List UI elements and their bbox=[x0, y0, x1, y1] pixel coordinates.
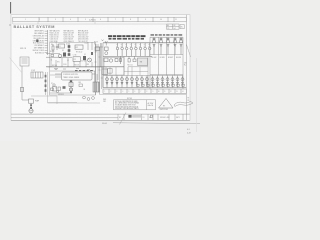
left lower frame bbox=[31, 96, 57, 104]
revision table top-right bbox=[167, 24, 185, 29]
main pcb outline bbox=[50, 43, 96, 96]
zener chain D2 bbox=[68, 43, 70, 56]
title strip dark cell bbox=[128, 115, 131, 118]
revision table entries bbox=[167, 24, 183, 30]
gate box G1 bbox=[108, 69, 113, 74]
inter-board wires bbox=[96, 43, 104, 95]
output row: triac T2 bbox=[111, 76, 114, 88]
switch box S1 bbox=[20, 57, 29, 66]
parts table column 2 bbox=[64, 29, 75, 43]
capacitor C11 bbox=[115, 59, 118, 62]
fork mark bbox=[105, 41, 107, 46]
U1 leads bbox=[55, 74, 96, 77]
output row: triac T5 bbox=[126, 76, 129, 88]
resistor R11 bbox=[120, 56, 122, 64]
junction box JB1 bbox=[102, 69, 108, 75]
lamp socket LS2 bbox=[160, 37, 163, 54]
motor wire bbox=[30, 103, 32, 109]
connector J2 hatched bbox=[31, 72, 43, 78]
title strip gray cell bbox=[132, 115, 141, 118]
wire across lower pcb bbox=[50, 92, 71, 94]
resistor R1 bbox=[52, 44, 54, 53]
bottom rule 2 bbox=[11, 117, 118, 119]
net label strip row 2 bbox=[109, 38, 145, 40]
small caps under bus bbox=[54, 68, 90, 69]
terminal strip TB1 bbox=[103, 89, 186, 93]
output row: triac T11 bbox=[156, 76, 159, 88]
lamp socket LS1 bbox=[153, 37, 156, 54]
transistor Q101 bbox=[116, 43, 119, 57]
socket label dashes bbox=[153, 38, 183, 39]
transistor Q108 bbox=[148, 43, 151, 57]
output row: triac T6 bbox=[131, 76, 134, 88]
lamp L1 bbox=[69, 88, 72, 91]
svg-text:4-19: 4-19 bbox=[187, 133, 191, 135]
crease diagonal left bbox=[10, 58, 23, 74]
parts table column 3 bbox=[78, 29, 89, 43]
title strip cells bbox=[118, 114, 183, 120]
transistor Q1 bbox=[63, 53, 66, 57]
relay coil K1 bbox=[75, 45, 83, 49]
Q row labels bbox=[116, 44, 150, 46]
transistor Q106 bbox=[139, 43, 142, 57]
damper diode D11 bbox=[104, 58, 108, 62]
output row: triac T8 bbox=[141, 76, 144, 88]
wire row w1 bbox=[50, 70, 96, 72]
wire row w2 bbox=[50, 74, 62, 76]
mid rail bbox=[103, 55, 152, 57]
ballast cell labels bbox=[152, 57, 182, 59]
under-strip rule bbox=[100, 94, 186, 96]
lamp socket LS4 bbox=[174, 37, 177, 54]
lamp socket LS3 bbox=[167, 37, 170, 54]
wire L1 down bbox=[70, 80, 72, 93]
subcircuit frame bbox=[104, 58, 124, 75]
right ac bus bbox=[103, 42, 183, 44]
bottom rule 1 bbox=[11, 113, 190, 115]
transistor Q2 bbox=[83, 56, 86, 60]
sheet bbox=[11, 15, 190, 121]
ballast grid bbox=[150, 37, 183, 89]
snubber R21 C21 bbox=[128, 56, 136, 62]
corner diagonal right bbox=[186, 44, 190, 57]
signature swoosh bbox=[174, 101, 193, 106]
parts table column 1 bbox=[50, 29, 61, 43]
header second row line bbox=[13, 23, 166, 25]
output row: triac T4 bbox=[121, 76, 124, 88]
relay RY2 bbox=[29, 99, 34, 103]
output block frame bbox=[150, 36, 183, 38]
node ticks to bus bbox=[45, 31, 48, 53]
riser wires bbox=[103, 56, 128, 87]
pot VR1 bbox=[88, 58, 92, 62]
aux parts left bbox=[53, 84, 55, 86]
scan grain overlay bbox=[11, 15, 190, 121]
varistor Z1 bbox=[63, 86, 66, 89]
transistor Q107 bbox=[144, 43, 147, 57]
TM relay box bbox=[138, 58, 148, 66]
lower rail bbox=[46, 66, 124, 68]
shadow line bbox=[113, 123, 200, 124]
ground rail bbox=[103, 87, 186, 89]
splice blob bbox=[36, 39, 38, 42]
entry component X1 bbox=[105, 47, 109, 55]
svg-text:FIG 4-2: FIG 4-2 bbox=[102, 123, 107, 125]
transistor Q103 bbox=[125, 43, 128, 57]
transistor Q105 bbox=[135, 43, 138, 57]
stub wire lower bbox=[48, 101, 77, 103]
Q row value labels bbox=[116, 45, 150, 47]
arrow mark bbox=[102, 40, 104, 42]
motor M1 bbox=[29, 109, 33, 113]
bottom rule 3 (sheet bottom) bbox=[11, 119, 190, 121]
tm link wire bbox=[124, 71, 148, 73]
output row: triac T13 bbox=[166, 76, 169, 88]
inner right border line bbox=[185, 15, 187, 121]
bundle ticks bbox=[95, 52, 103, 78]
pcb edge parts column bbox=[45, 75, 47, 92]
ballast TM tags bbox=[137, 84, 185, 86]
output row: triac T9 bbox=[146, 76, 149, 88]
output row: triac T1 bbox=[106, 76, 109, 88]
left signal label column bbox=[33, 31, 44, 55]
notes block bbox=[115, 100, 139, 110]
header zone letters bbox=[25, 19, 177, 21]
regulator IC2 bbox=[73, 57, 81, 62]
registration tick above sheet bbox=[10, 2, 12, 14]
terminal strip numbers bbox=[105, 91, 184, 93]
inline fuse F2 bbox=[20, 88, 23, 92]
strip mark square bbox=[150, 115, 152, 117]
transistor Q104 bbox=[130, 43, 133, 57]
output row: triac T16 bbox=[181, 76, 184, 88]
drop wires from tables bbox=[88, 42, 96, 52]
output row: triac T12 bbox=[161, 76, 164, 88]
rail extension bbox=[128, 66, 148, 68]
filter cap C5 bbox=[51, 54, 54, 56]
rectifier D1 bbox=[59, 44, 65, 48]
output row: triac T10 bbox=[151, 76, 154, 88]
thermistor TH1 bbox=[58, 54, 62, 58]
main horizontal bus B bbox=[48, 66, 104, 68]
bus drop wires bbox=[51, 58, 92, 67]
wire h1 bbox=[46, 53, 60, 55]
schematic triangle symbol bbox=[159, 99, 174, 109]
pcb bottom ext wire bbox=[48, 102, 101, 104]
notes frame bbox=[114, 100, 156, 110]
bead FB1 bbox=[91, 52, 93, 55]
connector block CN1 bbox=[93, 82, 100, 92]
choke L11 bbox=[109, 59, 112, 62]
header zone strip bbox=[13, 17, 187, 22]
page background bbox=[0, 0, 200, 141]
contact dot bbox=[30, 104, 32, 106]
triac labels bbox=[106, 77, 147, 79]
output row: triac T14 bbox=[171, 76, 174, 88]
svg-text:4-1: 4-1 bbox=[187, 129, 190, 131]
pcb edge wire bbox=[45, 72, 47, 95]
capacitor C1 bbox=[56, 44, 58, 50]
U1 pin dashes bbox=[75, 70, 93, 71]
lower rail 2 bbox=[103, 75, 183, 77]
wire from S1 down bbox=[21, 66, 23, 100]
riser pair bbox=[94, 71, 96, 82]
lamp socket LS5 bbox=[180, 37, 183, 54]
table column 4 marks bbox=[94, 40, 98, 45]
left vertical feeder wire bbox=[47, 30, 49, 55]
aux marks right of chain bbox=[79, 84, 82, 87]
rating cell bbox=[148, 102, 154, 107]
lower pcb parts row bbox=[53, 87, 61, 92]
control module U1 bbox=[62, 72, 93, 80]
net label strip over right bus bbox=[108, 35, 146, 37]
bus entry wire bbox=[96, 46, 104, 48]
rail risers right bbox=[110, 56, 148, 87]
fuse F1 bbox=[95, 47, 100, 51]
transistor Q102 bbox=[121, 43, 124, 57]
output row: triac T15 bbox=[176, 76, 179, 88]
output row: triac T7 bbox=[136, 76, 139, 88]
plug pins P1 bbox=[83, 96, 95, 100]
notes side labels bbox=[103, 99, 106, 103]
capacitor C9 bbox=[69, 83, 73, 87]
output block labels bbox=[151, 34, 183, 36]
leader diagonal bbox=[120, 113, 127, 125]
page edge shadow bbox=[196, 58, 198, 132]
part labels mid bbox=[50, 43, 89, 67]
output row: triac T3 bbox=[116, 76, 119, 88]
